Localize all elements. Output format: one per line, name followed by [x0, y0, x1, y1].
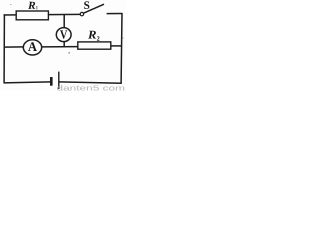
wire: switch fixed side to top-right corner [107, 13, 123, 15]
svg-text:danten5 com: danten5 com [57, 86, 126, 91]
label A [28, 42, 37, 51]
wire: ammeter to R2 [42, 46, 79, 48]
scan speck right vertical [122, 37, 123, 39]
label S [84, 1, 89, 9]
wire: right vertical [120, 13, 123, 83]
wire: middle-left, left vertical to ammeter [4, 46, 23, 48]
battery negative plate (short thick) [50, 77, 53, 86]
voltmeter V body [56, 28, 71, 42]
wire: bottom right, battery + to corner [59, 82, 122, 83]
ammeter A body [23, 40, 41, 55]
wire: voltmeter bottom lead to middle wire [63, 41, 65, 47]
label V [60, 30, 67, 38]
label R1 [28, 2, 35, 9]
wire: R2 to right vertical [111, 45, 122, 47]
wire: bottom left, corner to battery - [4, 82, 51, 83]
scan speck near middle wire [68, 52, 70, 53]
switch S blade [84, 4, 105, 13]
wire: left vertical [3, 14, 5, 83]
wire: top-left corner to R1 [4, 14, 17, 16]
resistor R2 [78, 42, 111, 49]
resistor R1 [16, 11, 48, 20]
battery positive plate (long thin) [58, 72, 59, 89]
scan speck top left [10, 4, 11, 5]
label R2 [88, 31, 96, 39]
wire: R1 to switch pivot [48, 13, 80, 15]
wire: voltmeter top lead from top wire [63, 15, 65, 28]
switch S pivot contact [80, 12, 83, 15]
